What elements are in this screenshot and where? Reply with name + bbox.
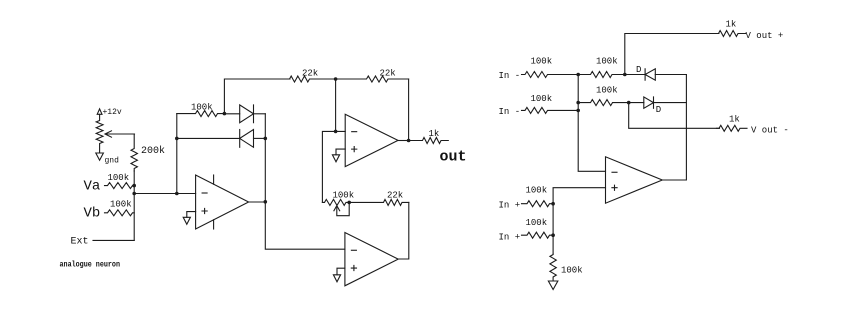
svg-text:100k: 100k	[108, 173, 130, 183]
wire U2 output to feedback node	[398, 140, 409, 142]
svg-text:In +: In +	[499, 233, 521, 243]
resistor R-Va 100k label	[108, 173, 130, 183]
wire Ext input	[93, 239, 134, 241]
resistor R-1k-	[717, 125, 748, 131]
power +12v symbol	[97, 108, 122, 117]
node U2 output junction	[407, 139, 411, 143]
label D (top diode)	[636, 65, 641, 75]
resistor R-fb2 100k label	[596, 86, 618, 96]
ground at U1 plus input	[183, 212, 195, 225]
svg-text:1k: 1k	[729, 115, 740, 125]
svg-text:100k: 100k	[561, 266, 583, 276]
resistor R-Va 100k	[105, 183, 135, 189]
wire 22k-c to U3 output	[398, 202, 409, 259]
svg-text:Vb: Vb	[84, 206, 101, 222]
svg-text:V out +: V out +	[746, 31, 784, 41]
wire summing line to op-amp U1 minus	[134, 193, 195, 195]
wire up to 22k row	[224, 79, 290, 114]
resistor R-in1a 100k label	[531, 57, 553, 67]
svg-text:D: D	[636, 65, 641, 75]
node D2 cathode junction	[264, 137, 268, 141]
svg-text:200k: 200k	[141, 145, 165, 157]
potentiometer P2 100k body	[322, 199, 349, 205]
label out	[440, 149, 467, 166]
ground at U3 plus input	[333, 268, 345, 282]
resistor 200k label	[141, 145, 165, 157]
wire U2 minus feed vertical	[335, 79, 337, 131]
label In + (row 1)	[499, 201, 521, 211]
svg-text:gnd: gnd	[105, 157, 120, 166]
svg-text:+12v: +12v	[103, 108, 122, 117]
wire V out - branch	[629, 103, 720, 129]
resistor R200k (vertical)	[131, 134, 137, 171]
svg-text:1k: 1k	[726, 20, 737, 30]
diode D1 (pointing right)	[224, 105, 265, 123]
resistor R-22k-a	[288, 76, 336, 82]
resistor R-in4 100k	[522, 232, 554, 238]
wire U1 output	[249, 201, 266, 203]
resistor R-in3 100k label	[526, 186, 548, 196]
resistor R-22k-b	[336, 76, 409, 82]
resistor R-in1b 100k	[578, 72, 625, 78]
label In - (row 2)	[499, 107, 521, 117]
svg-text:100k: 100k	[191, 103, 213, 113]
wire 22k-b to U2 output	[408, 79, 410, 141]
node U2 minus junction	[334, 130, 338, 134]
wire U1 output down to U3 minus	[265, 202, 345, 249]
wire feedback right vertical to U1 output	[264, 114, 266, 202]
svg-text:22k: 22k	[387, 191, 403, 201]
wire feedback vertical x=177	[176, 114, 178, 194]
svg-text:D: D	[656, 105, 661, 115]
ground gnd below potentiometer	[96, 153, 119, 166]
wire diode feedback lower row	[177, 137, 240, 139]
resistor R-gnd 100k (vertical)	[550, 254, 556, 281]
label D (bottom diode)	[656, 105, 661, 115]
svg-text:V out -: V out -	[751, 126, 789, 136]
resistor R-in4 100k label	[526, 218, 548, 228]
node between R-fb and diode D1	[223, 112, 227, 116]
resistor R-in1a 100k	[522, 72, 579, 78]
label Ext	[71, 237, 89, 248]
node feedback tap on summing line	[175, 192, 179, 196]
op-amp U3	[345, 233, 398, 286]
node minus bus row2	[576, 109, 580, 113]
label V out +	[746, 31, 784, 41]
ground at In+ divider	[548, 281, 558, 290]
diode D4 (pointing right)	[629, 97, 687, 108]
wire U2 minus line and branch to lower pot	[322, 131, 345, 202]
node 22k junction	[334, 77, 338, 81]
resistor R-fb 100k feedback	[177, 111, 225, 117]
label In - (row 1)	[499, 71, 521, 81]
label In + (row 2)	[499, 233, 521, 243]
resistor R-22k-c label	[387, 191, 403, 201]
node summing junction at input bus	[132, 192, 136, 196]
resistor R-22k-c	[349, 199, 409, 205]
wire V out + branch	[625, 34, 719, 75]
svg-text:100k: 100k	[531, 57, 553, 67]
label V out -	[751, 126, 789, 136]
potentiometer P2 wiper (up arrow, tied to right end)	[334, 202, 349, 215]
op-amp U1	[196, 175, 249, 229]
resistor R-1k- label	[729, 115, 740, 125]
resistor R-22k-b label	[380, 69, 396, 79]
diode D3 (pointing left)	[625, 69, 687, 80]
label Va	[84, 179, 101, 195]
svg-text:100k: 100k	[110, 200, 132, 210]
op-amp U2	[345, 114, 398, 166]
node P2 right terminal	[347, 201, 351, 205]
resistor R-22k-a label	[302, 69, 318, 79]
svg-text:100k: 100k	[526, 218, 548, 228]
wire minus bus vertical to U4	[578, 75, 605, 172]
node Va junction	[132, 184, 136, 188]
resistor R-in2 100k	[522, 107, 579, 113]
resistor R-1k output	[409, 138, 449, 144]
resistor R-Vb 100k	[105, 210, 135, 216]
resistor R-1k out label	[429, 129, 440, 139]
node A (minus bus top)	[576, 73, 580, 77]
svg-text:out: out	[440, 149, 467, 166]
svg-text:100k: 100k	[526, 186, 548, 196]
svg-text:100k: 100k	[596, 86, 618, 96]
resistor R-Vb 100k label	[110, 200, 132, 210]
resistor R-gnd 100k label	[561, 266, 583, 276]
node In+ bus row2	[551, 233, 555, 237]
node B (V out + tap)	[623, 73, 627, 77]
svg-text:In +: In +	[499, 201, 521, 211]
node feedback row left tap	[576, 101, 580, 105]
potentiometer P1 wiper arrow	[105, 131, 135, 137]
label Vb	[84, 206, 101, 222]
potentiometer P1 200k body (vertical)	[96, 114, 103, 153]
wire U4 plus input from In+ bus	[553, 188, 605, 254]
caption analogue neuron	[60, 261, 121, 270]
resistor R-1k+	[716, 31, 746, 37]
op-amp U4	[606, 157, 663, 203]
svg-text:Va: Va	[84, 179, 101, 195]
resistor R-in3 100k	[522, 201, 554, 207]
wire vertical input bus x=134	[133, 171, 135, 240]
svg-text:Ext: Ext	[71, 237, 89, 248]
resistor R-fb2 100k	[578, 100, 629, 106]
svg-text:100k: 100k	[531, 94, 553, 104]
node U1 output junction	[264, 200, 268, 204]
diode D2 (pointing left)	[240, 130, 266, 148]
svg-text:analogue neuron: analogue neuron	[60, 261, 121, 270]
wire U4 output to diode bus	[662, 75, 686, 181]
svg-text:100k: 100k	[333, 191, 355, 201]
svg-text:In -: In -	[499, 107, 521, 117]
node In+ bus row1	[551, 202, 555, 206]
svg-text:In -: In -	[499, 71, 521, 81]
resistor R-in2 100k label	[531, 94, 553, 104]
node diode feedback row tap	[175, 137, 179, 141]
ground at U2 plus input	[332, 149, 345, 162]
resistor R-1k+ label	[726, 20, 737, 30]
potentiometer P2 100k label	[333, 191, 355, 201]
resistor R-fb 100k label	[191, 103, 213, 113]
node C (V out - tap)	[627, 101, 631, 105]
svg-text:100k: 100k	[596, 57, 618, 67]
resistor R-in1b 100k label	[596, 57, 618, 67]
